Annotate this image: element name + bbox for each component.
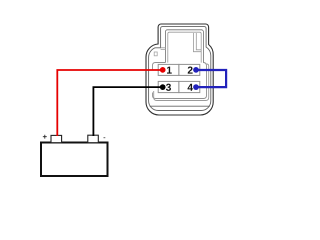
step detail left xyxy=(161,48,166,50)
pin cavity box 4 xyxy=(179,81,200,92)
battery B1 body xyxy=(41,143,108,177)
connector J1 inner housing outline xyxy=(149,27,211,111)
battery - label xyxy=(103,136,105,139)
pin cavity box 3 xyxy=(158,81,179,92)
pin cavity box 1 xyxy=(158,64,179,75)
pin 4 contact dot (blue) xyxy=(193,84,199,90)
notch detail left xyxy=(154,52,157,56)
pin 1 contact dot (red) xyxy=(160,67,166,73)
pin cavity box 2 xyxy=(179,64,200,75)
pin 2 label xyxy=(188,66,193,73)
battery + label xyxy=(43,135,47,139)
cavity opening bottom and right wall xyxy=(153,63,207,99)
cavity key tab outer xyxy=(165,30,203,63)
red wire: battery + to pin 1 xyxy=(57,70,163,136)
pin 1 label xyxy=(167,67,172,74)
black wire: battery - to pin 3 xyxy=(93,87,162,136)
cavity opening top-left corner xyxy=(153,63,166,71)
pin 3 label xyxy=(166,84,171,91)
battery positive terminal post xyxy=(51,135,62,142)
key step detail right xyxy=(193,33,201,52)
blue jumper wire: pin 2 to pin 4 xyxy=(196,70,226,87)
pin 3 contact dot (black) xyxy=(160,84,166,90)
connector collar line xyxy=(150,105,210,107)
pin 2 contact dot (blue) xyxy=(193,67,199,73)
cavity key tab inner xyxy=(168,32,201,62)
cavity depth line (bottom and right) xyxy=(154,64,209,101)
connector J1 outer housing outline xyxy=(146,24,213,115)
pin 4 label xyxy=(188,84,193,91)
battery negative terminal post xyxy=(88,135,99,143)
